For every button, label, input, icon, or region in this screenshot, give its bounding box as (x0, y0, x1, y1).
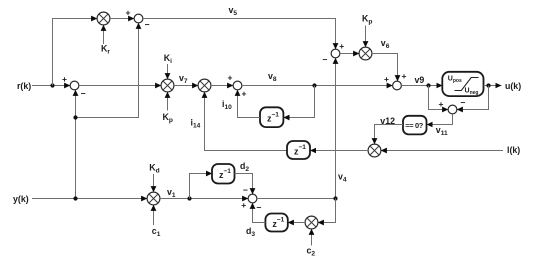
svg-text:+: + (439, 99, 444, 109)
wire v5 from S4 to summer S5 (143, 19, 336, 50)
svg-text:+: + (384, 74, 389, 84)
wire v1 up into delay Z3 (190, 174, 213, 199)
wire feedback up into S4 bottom (76, 23, 139, 118)
summer S3 (v8 plus v6) (393, 81, 402, 90)
svg-text:u(k): u(k) (505, 81, 521, 91)
wire Kr into M1 (103, 25, 105, 44)
node junction u (486, 83, 490, 87)
wire v9 from S3 to limiter (401, 85, 442, 87)
wire i14 into M3 bottom (205, 92, 288, 151)
wire v8 down into delay Z1 (284, 86, 315, 118)
multiplier M6 (Kd) (147, 192, 160, 205)
node junction v1 (187, 196, 191, 200)
wire v8 from S2 to summer S3 (242, 85, 393, 87)
node junction v4 (333, 196, 337, 200)
svg-text:+: + (402, 71, 407, 81)
svg-text:−1: −1 (299, 144, 307, 151)
wire M5 to delay Z2 (310, 150, 368, 152)
svg-text:+: + (241, 200, 246, 210)
wire d3 from Z4 up into S7 bottom (253, 203, 266, 223)
wire y feedback up into S1 (75, 90, 77, 199)
svg-text:+: + (126, 8, 131, 18)
svg-text:v12: v12 (380, 116, 395, 126)
node junction on r(k) line (50, 83, 54, 87)
wire v12 from comparator down into multiplier M5 (375, 125, 404, 145)
svg-text:−1: −1 (224, 168, 232, 175)
wire v6 from M4 down into S3 top (372, 54, 398, 82)
wire y(k) into multiplier M6 (32, 198, 147, 200)
svg-text:+: + (242, 89, 247, 99)
wire M7 to delay Z4 (288, 222, 305, 224)
delay block Z4 (265, 214, 287, 232)
wire limiter to u(k) (484, 85, 502, 87)
wire S5 to multiplier M4 (340, 53, 359, 55)
multiplier M3 (i14) (198, 79, 211, 92)
wire junction up to multiplier M1 (53, 19, 98, 86)
svg-text:−1: −1 (272, 111, 280, 118)
multiplier M4 (Kp) (359, 47, 372, 60)
wire c1 into M6 bottom (153, 205, 155, 225)
svg-text:v9: v9 (415, 75, 425, 85)
svg-text:−: − (461, 98, 466, 108)
svg-text:−: − (243, 185, 248, 195)
wire M1 to summer S4 (110, 18, 134, 20)
multiplier M2 (Ki,Kp) (161, 79, 174, 92)
svg-text:l(k): l(k) (507, 145, 520, 155)
svg-text:y(k): y(k) (13, 194, 29, 204)
svg-text:+: + (62, 74, 67, 84)
node junction v8 (312, 83, 316, 87)
summer S6 (v9 minus u) (448, 105, 457, 114)
svg-text:−: − (323, 55, 328, 65)
multiplier M1 (Kr) (97, 12, 110, 25)
svg-text:r(k): r(k) (17, 81, 31, 91)
wire u down to summer S6 right (457, 86, 489, 110)
comparator block ==0? (403, 116, 427, 135)
wire M3 to summer S2 (211, 85, 233, 87)
node junction y (73, 196, 77, 200)
node junction on feedback (73, 115, 77, 119)
delay block Z3 (212, 164, 235, 184)
wire S6 down into comparator block (427, 114, 453, 125)
svg-text:== 0?: == 0? (405, 121, 424, 130)
wire d2 from Z3 down into S7 top (235, 174, 253, 195)
summer S1 (r minus y) (70, 81, 79, 90)
wire Kp into M4 top (365, 26, 367, 48)
wire Ki into M2 top (167, 64, 169, 79)
wire v7 from M2 to multiplier M3 (174, 85, 198, 87)
summer S7 (v1 minus d2 minus d3) (248, 194, 257, 203)
wire v4 down to multiplier M7 (318, 199, 336, 223)
wire Kp into M2 bottom (167, 92, 169, 111)
wire Kd into M6 top (153, 174, 155, 192)
wire v1 from M6 to summer S7 (160, 198, 248, 200)
svg-text:−: − (145, 20, 150, 30)
wire v4 up into S5 bottom (335, 58, 337, 199)
wire S1 to multiplier M2 (79, 85, 161, 87)
svg-text:−1: −1 (277, 217, 285, 224)
wire Z1 out up into S2 bottom (238, 90, 261, 118)
wire r(k) to summer S1 (32, 85, 70, 87)
wire l(k) into multiplier M5 (381, 150, 503, 152)
wire S7 output to v4 node (257, 198, 336, 200)
svg-text:−: − (81, 89, 86, 99)
delay block Z1 (260, 107, 283, 127)
limiter block U (saturation) (442, 72, 483, 96)
delay block Z2 (287, 141, 310, 159)
summer S4 (134, 14, 143, 23)
summer S2 (233, 81, 242, 90)
svg-text:+: + (339, 41, 344, 51)
wire v9 down to summer S6 (429, 86, 449, 110)
multiplier M7 (c2) (305, 216, 318, 229)
svg-text:−: − (257, 203, 262, 213)
summer S5 (v5 minus v4) (331, 49, 340, 58)
multiplier M5 (l times v12) (368, 144, 381, 157)
svg-text:+: + (228, 73, 233, 83)
node junction v9 (426, 83, 430, 87)
wire c2 into M7 bottom (311, 229, 313, 246)
